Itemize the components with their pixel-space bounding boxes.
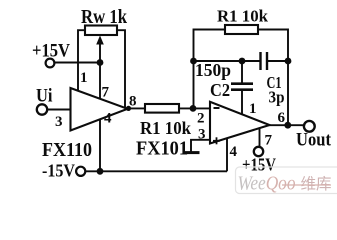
svg-text:7: 7 — [265, 133, 273, 149]
terminal Uout — [304, 121, 315, 132]
svg-text:2: 2 — [197, 111, 205, 127]
svg-text:3: 3 — [198, 127, 206, 143]
svg-text:Ui: Ui — [36, 86, 53, 107]
svg-text:C2: C2 — [210, 80, 230, 100]
resistor R1 10k series body — [145, 104, 179, 113]
terminal Ui input — [37, 104, 47, 114]
node feedback right — [285, 58, 292, 65]
watermark strike line — [282, 184, 331, 186]
capacitor C1 3p plates — [259, 52, 261, 70]
svg-text:FX110: FX110 — [42, 139, 92, 161]
node output — [284, 122, 291, 129]
wire feedback right riser to output — [287, 61, 289, 125]
rail -15V — [86, 170, 227, 172]
svg-text:1: 1 — [249, 101, 257, 117]
wire pin4 U2 to -15V rail — [226, 138, 228, 171]
svg-text:4: 4 — [230, 144, 238, 160]
wire wiper arrow stem — [99, 43, 101, 63]
svg-text:FX101: FX101 — [136, 138, 188, 160]
wire Ui to pin3 U1 — [47, 109, 71, 111]
node U1 output — [126, 106, 131, 111]
svg-text:-15V: -15V — [42, 161, 75, 181]
svg-text:1: 1 — [80, 70, 88, 86]
op-amp U2 FX101 triangle — [210, 102, 270, 144]
ground bar — [185, 151, 200, 154]
wire 150p row to C1 — [194, 60, 261, 62]
node inverting input U2 — [190, 105, 197, 112]
svg-text:3: 3 — [55, 114, 63, 130]
minus sign U2 pin2 — [214, 107, 220, 109]
node pin4 U1 on rail — [97, 168, 104, 175]
wire Rw right lead to pin8 U1 — [117, 30, 125, 107]
plus sign U2 pin3 — [213, 140, 220, 142]
wire U2 output — [267, 124, 304, 126]
svg-text:+15V: +15V — [242, 155, 276, 175]
terminal +15V bottom — [254, 147, 263, 156]
wire pin7 U2 to +15V — [259, 128, 261, 147]
svg-text:6: 6 — [278, 110, 286, 126]
wire feedback left riser — [194, 30, 226, 109]
svg-text:Uout: Uout — [296, 130, 332, 151]
svg-text:Rw 1k: Rw 1k — [81, 7, 127, 28]
svg-text:+15V: +15V — [32, 41, 70, 62]
svg-text:8: 8 — [129, 94, 137, 110]
node C2 top — [239, 58, 246, 65]
node 150p row left — [190, 58, 197, 65]
watermark box — [236, 167, 337, 194]
wire C1 right to feedback node — [267, 60, 288, 62]
op-amp U1 FX110 triangle — [71, 88, 128, 131]
svg-text:3p: 3p — [269, 88, 285, 107]
svg-text:R1 10k: R1 10k — [217, 7, 269, 26]
terminal +15V top-left — [46, 59, 55, 68]
potentiometer Rw body — [85, 26, 117, 36]
wire pin7 U1 (V+) — [99, 63, 101, 100]
wire C2 top lead — [241, 61, 243, 83]
wiper arrowhead of Rw — [96, 36, 104, 45]
capacitor C2 150p plates — [231, 82, 253, 85]
wire pin3 U2 to ground — [191, 140, 210, 152]
wire R1 feedback right lead — [258, 30, 288, 62]
node wiper/+15V junction — [97, 59, 104, 66]
wire pin4 U1 — [99, 120, 101, 172]
wire C2 bottom lead to pin1 U2 — [241, 90, 243, 114]
wire Rw left lead to pin1 U1 — [78, 30, 85, 91]
wire U1 output to R1 — [126, 107, 145, 109]
svg-text:维库: 维库 — [301, 175, 332, 193]
svg-text:4: 4 — [104, 111, 112, 127]
terminal -15V — [76, 167, 85, 176]
resistor R1 10k feedback body — [225, 25, 258, 34]
wire +15V to wiper node — [54, 62, 100, 64]
svg-text:7: 7 — [102, 85, 110, 101]
svg-text:WeeQoo: WeeQoo — [238, 173, 296, 195]
svg-text:150p: 150p — [195, 60, 231, 80]
svg-text:R1 10k: R1 10k — [140, 118, 191, 138]
wire R1 to pin2 U2 — [179, 107, 210, 109]
